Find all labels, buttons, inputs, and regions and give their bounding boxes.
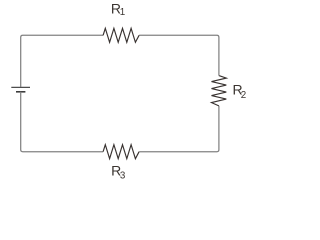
wire from battery bottom to bottom-left corner to R3 left lead [21,92,103,152]
resistor R1 [103,28,139,42]
svg-text:3: 3 [120,170,126,181]
battery long plate (positive) [11,86,30,88]
wire from R3 right lead to bottom-right corner up to R2 bottom [139,106,219,152]
battery short plate (negative) [16,91,25,93]
resistor R3 [103,145,139,159]
svg-text:2: 2 [241,90,246,101]
wire from R1 left lead to top-left corner down to battery top [21,35,103,87]
svg-text:1: 1 [120,7,125,18]
wire from R2 top to top-right corner to R1 right lead [139,35,219,75]
resistor R2 [212,76,227,106]
